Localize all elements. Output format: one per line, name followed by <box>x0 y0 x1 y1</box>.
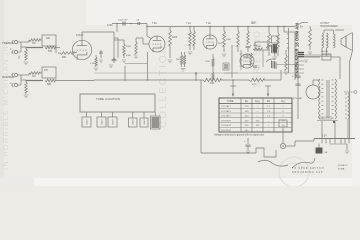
svg-text:V4 6V6GT: V4 6V6GT <box>221 120 232 122</box>
svg-text:TO SPKR SWITCH: TO SPKR SWITCH <box>292 168 324 170</box>
svg-text:V5 6V6GT: V5 6V6GT <box>221 125 232 127</box>
svg-text:56K: 56K <box>176 59 180 61</box>
svg-text:470K: 470K <box>107 24 113 27</box>
svg-text:12AX7: 12AX7 <box>132 118 135 125</box>
svg-text:Voltages measured to ground wi: Voltages measured to ground with no sign… <box>214 134 265 137</box>
svg-text:V2 12AX7: V2 12AX7 <box>221 110 232 113</box>
svg-text:GROUNDING CAP: GROUNDING CAP <box>292 171 323 174</box>
svg-text:CHOKE: CHOKE <box>321 51 329 53</box>
svg-text:12AX7: 12AX7 <box>76 34 84 37</box>
svg-text:1M: 1M <box>32 75 35 78</box>
svg-text:12AX7: 12AX7 <box>85 118 88 125</box>
svg-text:10K: 10K <box>46 38 51 40</box>
svg-text:60 MA: 60 MA <box>338 168 345 171</box>
svg-text:100K: 100K <box>126 46 132 48</box>
svg-text:1.5K: 1.5K <box>90 63 95 65</box>
svg-text:V1 12AX7: V1 12AX7 <box>221 105 232 108</box>
svg-text:51K: 51K <box>48 50 53 53</box>
svg-text:1M: 1M <box>32 42 35 45</box>
svg-text:1M: 1M <box>18 56 21 59</box>
svg-text:+: + <box>250 43 252 47</box>
svg-text:V6 5Y3GT: V6 5Y3GT <box>221 130 232 132</box>
svg-text:20µF 25V: 20µF 25V <box>118 20 128 22</box>
svg-text:IN HORRIBLE MICHIGAN INC: IN HORRIBLE MICHIGAN INC <box>3 38 10 170</box>
svg-text:6.3V: 6.3V <box>322 136 327 138</box>
svg-text:TUBE: TUBE <box>227 99 234 103</box>
svg-text:100K: 100K <box>226 39 232 41</box>
svg-text:100n: 100n <box>253 45 257 47</box>
svg-text:12AX7: 12AX7 <box>100 118 103 125</box>
svg-text:TRANSFORMER: TRANSFORMER <box>320 25 338 28</box>
svg-text:10K: 10K <box>210 82 215 85</box>
svg-text:T 2w: T 2w <box>206 23 211 25</box>
svg-text:1M: 1M <box>243 56 246 58</box>
svg-text:T 2w: T 2w <box>186 23 191 25</box>
svg-text:Esg: Esg <box>255 99 260 103</box>
svg-text:Eg: Eg <box>281 99 285 103</box>
svg-text:12AX7: 12AX7 <box>111 118 114 125</box>
svg-text:68K: 68K <box>62 56 67 59</box>
svg-text:TUBE LOCATION: TUBE LOCATION <box>96 97 120 101</box>
svg-text:100K: 100K <box>205 61 210 63</box>
svg-text:1500: 1500 <box>126 55 132 57</box>
svg-text:6V 6A DC: 6V 6A DC <box>338 164 348 167</box>
svg-text:68K: 68K <box>47 83 52 86</box>
svg-text:OUTPUT: OUTPUT <box>320 23 330 25</box>
svg-text:1M2 .5: 1M2 .5 <box>218 43 225 45</box>
svg-text:12AX7: 12AX7 <box>143 118 146 125</box>
svg-text:T 2w: T 2w <box>152 23 157 25</box>
svg-text:Ep: Ep <box>245 99 249 103</box>
svg-text:100K: 100K <box>172 37 178 39</box>
svg-text:COLLECTION: COLLECTION <box>158 44 169 128</box>
svg-text:V3 12AX7: V3 12AX7 <box>221 115 232 118</box>
